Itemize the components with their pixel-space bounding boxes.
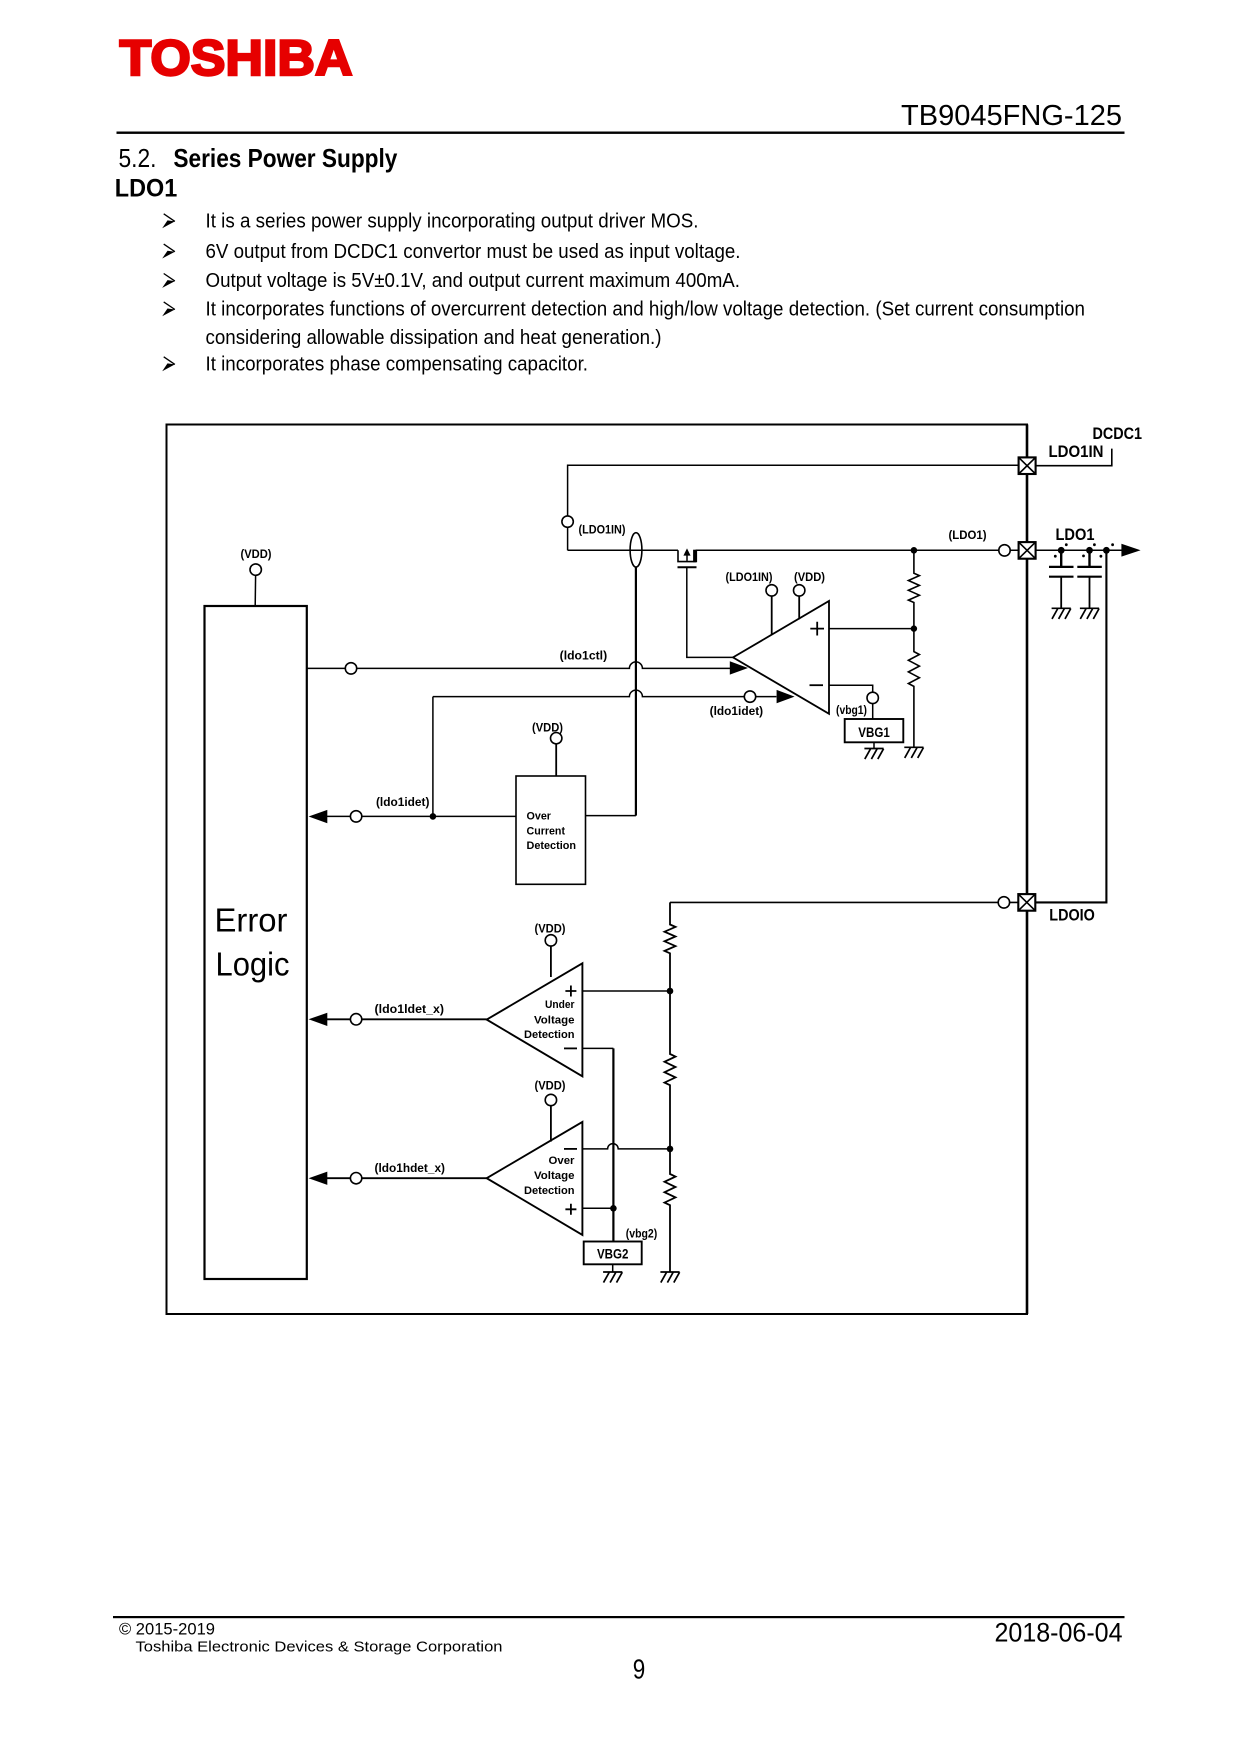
wire output rail Q1 to LDO1 pin xyxy=(696,549,1124,551)
junction dot output rail at divider xyxy=(911,547,918,554)
schematic outer frame xyxy=(167,425,1028,1315)
svg-text:Detection: Detection xyxy=(527,840,577,852)
arrowhead ldo1idet into U1 xyxy=(777,690,795,703)
ground below C1 xyxy=(1052,608,1071,619)
svg-text:(VDD): (VDD) xyxy=(535,1079,566,1093)
resistor R3 top of LDOIO divider xyxy=(665,902,676,991)
node bubble on ldo1ctl xyxy=(345,663,356,674)
junction dot ldo1idet xyxy=(430,813,437,820)
wire VBG1 to ground xyxy=(873,742,875,748)
header rule xyxy=(117,132,1125,134)
wire LDO1IN bubble up to top rail xyxy=(568,465,1019,516)
bullet 2 marker xyxy=(162,244,175,258)
wire LDO1IN pin to DCDC1 xyxy=(1036,449,1112,466)
sense ellipse on input rail xyxy=(630,533,642,567)
ground below VBG1 xyxy=(864,749,883,760)
node (LDO1IN) supply of U1 xyxy=(726,570,778,635)
ground below C2 xyxy=(1080,608,1099,619)
node divider tap dot xyxy=(911,625,917,631)
comparator U3 Over Voltage Detection xyxy=(487,1122,583,1235)
arrowhead ldo1hdet_x into Error Logic xyxy=(309,1172,328,1185)
svg-text:It incorporates phase compensa: It incorporates phase compensating capac… xyxy=(206,354,589,376)
svg-text:It is a series power supply in: It is a series power supply incorporatin… xyxy=(206,211,699,233)
node (VDD) supply of OCD xyxy=(532,721,563,777)
junction dot C2 xyxy=(1086,547,1093,554)
wire bold drop from ellipse to OCD xyxy=(635,567,637,816)
wire ldo1idet lower branch xyxy=(327,815,516,817)
bullet 3 marker xyxy=(162,274,175,288)
svg-text:TB9045FNG-125: TB9045FNG-125 xyxy=(901,100,1122,132)
wire input rail left of Q1 xyxy=(568,549,678,551)
bullet 5 marker xyxy=(162,357,175,371)
node bubble on ldo1idet lower xyxy=(350,811,361,822)
wire (ldo1hdet_x) xyxy=(327,1177,487,1179)
arrowhead ldo1idet into Error Logic xyxy=(309,810,328,823)
svg-text:(LDO1IN): (LDO1IN) xyxy=(726,570,773,584)
svg-text:It incorporates functions of o: It incorporates functions of overcurrent… xyxy=(206,299,1086,321)
wire U2 minus input xyxy=(582,1047,613,1049)
ground below R5 xyxy=(660,1272,679,1283)
reference block VBG1 xyxy=(845,719,904,742)
node (vbg1) bubble xyxy=(867,692,878,703)
svg-text:(LDO1): (LDO1) xyxy=(949,528,987,542)
ground below R2 xyxy=(904,747,923,758)
arrowhead LDO1 output xyxy=(1121,544,1140,557)
svg-text:(ldo1idet): (ldo1idet) xyxy=(376,795,430,809)
resistor R5 bottom of LDOIO divider xyxy=(665,1149,676,1272)
svg-text:LDOIO: LDOIO xyxy=(1049,905,1095,924)
transistor Q1 output MOS xyxy=(678,548,698,567)
svg-text:VBG1: VBG1 xyxy=(858,725,890,740)
svg-text:VBG2: VBG2 xyxy=(597,1247,629,1262)
terminal LDO1 xyxy=(1019,542,1036,559)
svg-text:considering allowable dissipat: considering allowable dissipation and he… xyxy=(206,327,662,349)
svg-text:DCDC1: DCDC1 xyxy=(1093,425,1143,443)
capacitor C2 xyxy=(1077,552,1102,608)
svg-text:Over: Over xyxy=(549,1155,576,1167)
junction dot C1 xyxy=(1058,547,1065,554)
junction dot vbg2 plus xyxy=(610,1205,617,1212)
svg-text:2018-06-04: 2018-06-04 xyxy=(995,1617,1123,1647)
svg-text:Output voltage is 5V±0.1V, and: Output voltage is 5V±0.1V, and output cu… xyxy=(206,270,741,292)
wire OCD output to bold drop xyxy=(586,815,636,817)
Over Current Detection block xyxy=(516,776,586,884)
svg-text:Voltage: Voltage xyxy=(534,1014,575,1026)
svg-text:LDO1: LDO1 xyxy=(1056,525,1095,544)
wire (ldo1ctl) from Error Logic to U1 xyxy=(307,662,731,668)
wire U3 minus input to divider with hop xyxy=(582,1144,670,1149)
bullet 4 marker xyxy=(162,302,175,316)
svg-text:Voltage: Voltage xyxy=(534,1170,575,1182)
footer rule xyxy=(113,1616,1125,1618)
junction dot U2 plus tap xyxy=(667,988,674,995)
op-amp U1 error amplifier xyxy=(733,601,829,714)
Error Logic block xyxy=(205,606,307,1279)
wire LDO1IN bubble down to input rail xyxy=(567,527,569,550)
svg-text:(VDD): (VDD) xyxy=(794,570,825,584)
comparator U2 Under Voltage Detection xyxy=(487,963,583,1076)
reference block VBG2 xyxy=(584,1242,642,1265)
svg-text:(VDD): (VDD) xyxy=(535,921,566,935)
node bubble before LDO1 pin xyxy=(999,545,1010,556)
right-edge terminal bus xyxy=(1026,425,1029,1315)
ground below VBG2 xyxy=(603,1272,622,1283)
terminal LDO1IN xyxy=(1019,457,1036,474)
wire U2 plus input to divider xyxy=(582,990,670,992)
node bubble on ldo1ldet_x xyxy=(350,1014,361,1025)
arrowhead ldo1ldet_x into Error Logic xyxy=(309,1013,328,1026)
node (VDD) supply of U1 xyxy=(794,570,826,619)
node bubble before LDOIO pin xyxy=(998,897,1009,908)
svg-text:Toshiba Electronic Devices & S: Toshiba Electronic Devices & Storage Cor… xyxy=(136,1639,503,1656)
svg-text:Current: Current xyxy=(527,826,566,838)
node (VDD) supply of U3 xyxy=(535,1079,566,1142)
svg-text:Detection: Detection xyxy=(524,1029,575,1041)
wire (ldo1ldet_x) xyxy=(327,1018,487,1020)
node bubble on ldo1idet upper xyxy=(744,691,755,702)
svg-text:Error: Error xyxy=(215,902,288,939)
svg-text:Series Power Supply: Series Power Supply xyxy=(173,143,397,173)
arrowhead ldo1ctl into U1 xyxy=(730,661,748,674)
wire U1 minus input to VBG1 xyxy=(829,685,873,692)
svg-text:Under: Under xyxy=(545,999,575,1011)
bullet 1 marker xyxy=(162,214,175,228)
terminal LDOIO xyxy=(1018,894,1035,911)
wire VBG2 to ground xyxy=(612,1264,614,1272)
wire U3 plus input to vbg2 xyxy=(582,1207,613,1209)
svg-text:(vbg1): (vbg1) xyxy=(836,703,867,717)
node (LDO1IN) bubble xyxy=(562,516,573,527)
svg-text:LDO1: LDO1 xyxy=(115,174,178,202)
svg-text:(LDO1IN): (LDO1IN) xyxy=(579,523,626,537)
wire ldo1idet vertical riser xyxy=(432,697,434,817)
svg-text:(ldo1hdet_x): (ldo1hdet_x) xyxy=(375,1161,446,1175)
svg-text:© 2015-2019: © 2015-2019 xyxy=(119,1620,215,1639)
svg-text:(ldo1ldet_x): (ldo1ldet_x) xyxy=(375,1002,445,1016)
wire feedback from LDO1 output to LDOIO pin xyxy=(1035,550,1106,902)
svg-text:(VDD): (VDD) xyxy=(241,547,272,561)
svg-text:Over: Over xyxy=(527,811,552,823)
svg-text:LDO1IN: LDO1IN xyxy=(1049,442,1104,461)
svg-text:5.2.: 5.2. xyxy=(119,143,157,173)
svg-text:TOSHIBA: TOSHIBA xyxy=(120,30,353,86)
resistor R1 upper feedback xyxy=(908,550,919,628)
svg-text:(ldo1ctl): (ldo1ctl) xyxy=(560,649,608,663)
node (VDD) supply of U2 xyxy=(535,921,566,977)
wire LDOIO pin to divider chain xyxy=(670,901,1019,903)
junction dot feedback xyxy=(1103,547,1110,554)
junction dot U3 minus tap xyxy=(667,1146,674,1153)
svg-text:9: 9 xyxy=(633,1654,646,1685)
node (VDD) supply for Error Logic xyxy=(241,547,272,606)
svg-text:(ldo1idet): (ldo1idet) xyxy=(710,704,764,718)
svg-text:(vbg2): (vbg2) xyxy=(626,1226,658,1240)
wire vbg2 vertical xyxy=(612,1048,614,1241)
wire U1 plus input to divider tap xyxy=(829,628,914,630)
resistor R4 middle of LDOIO divider xyxy=(665,991,676,1149)
svg-text:Logic: Logic xyxy=(216,946,290,983)
wire Q1 gate to U1 output xyxy=(687,567,733,657)
wire vbg1 bubble to VBG1 xyxy=(872,704,874,719)
wire (ldo1idet) upper branch to U1 minus side xyxy=(433,690,777,697)
svg-text:6V output from DCDC1 convertor: 6V output from DCDC1 convertor must be u… xyxy=(206,241,741,263)
resistor R2 lower feedback xyxy=(908,629,919,748)
node bubble on ldo1hdet_x xyxy=(350,1173,361,1184)
dotted marks near external caps xyxy=(1054,543,1114,557)
capacitor C1 xyxy=(1049,552,1074,608)
svg-text:Detection: Detection xyxy=(524,1185,575,1197)
